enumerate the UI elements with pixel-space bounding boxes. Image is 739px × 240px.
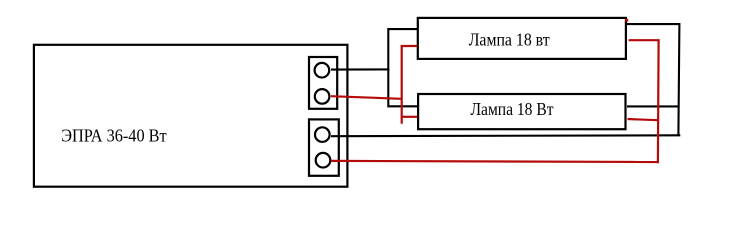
svg-text:Лампа 18 Вт: Лампа 18 Вт bbox=[471, 99, 554, 119]
svg-text:Лампа 18 вт: Лампа 18 вт bbox=[469, 30, 550, 50]
svg-text:ЭПРА 36-40 Вт: ЭПРА 36-40 Вт bbox=[61, 125, 167, 145]
